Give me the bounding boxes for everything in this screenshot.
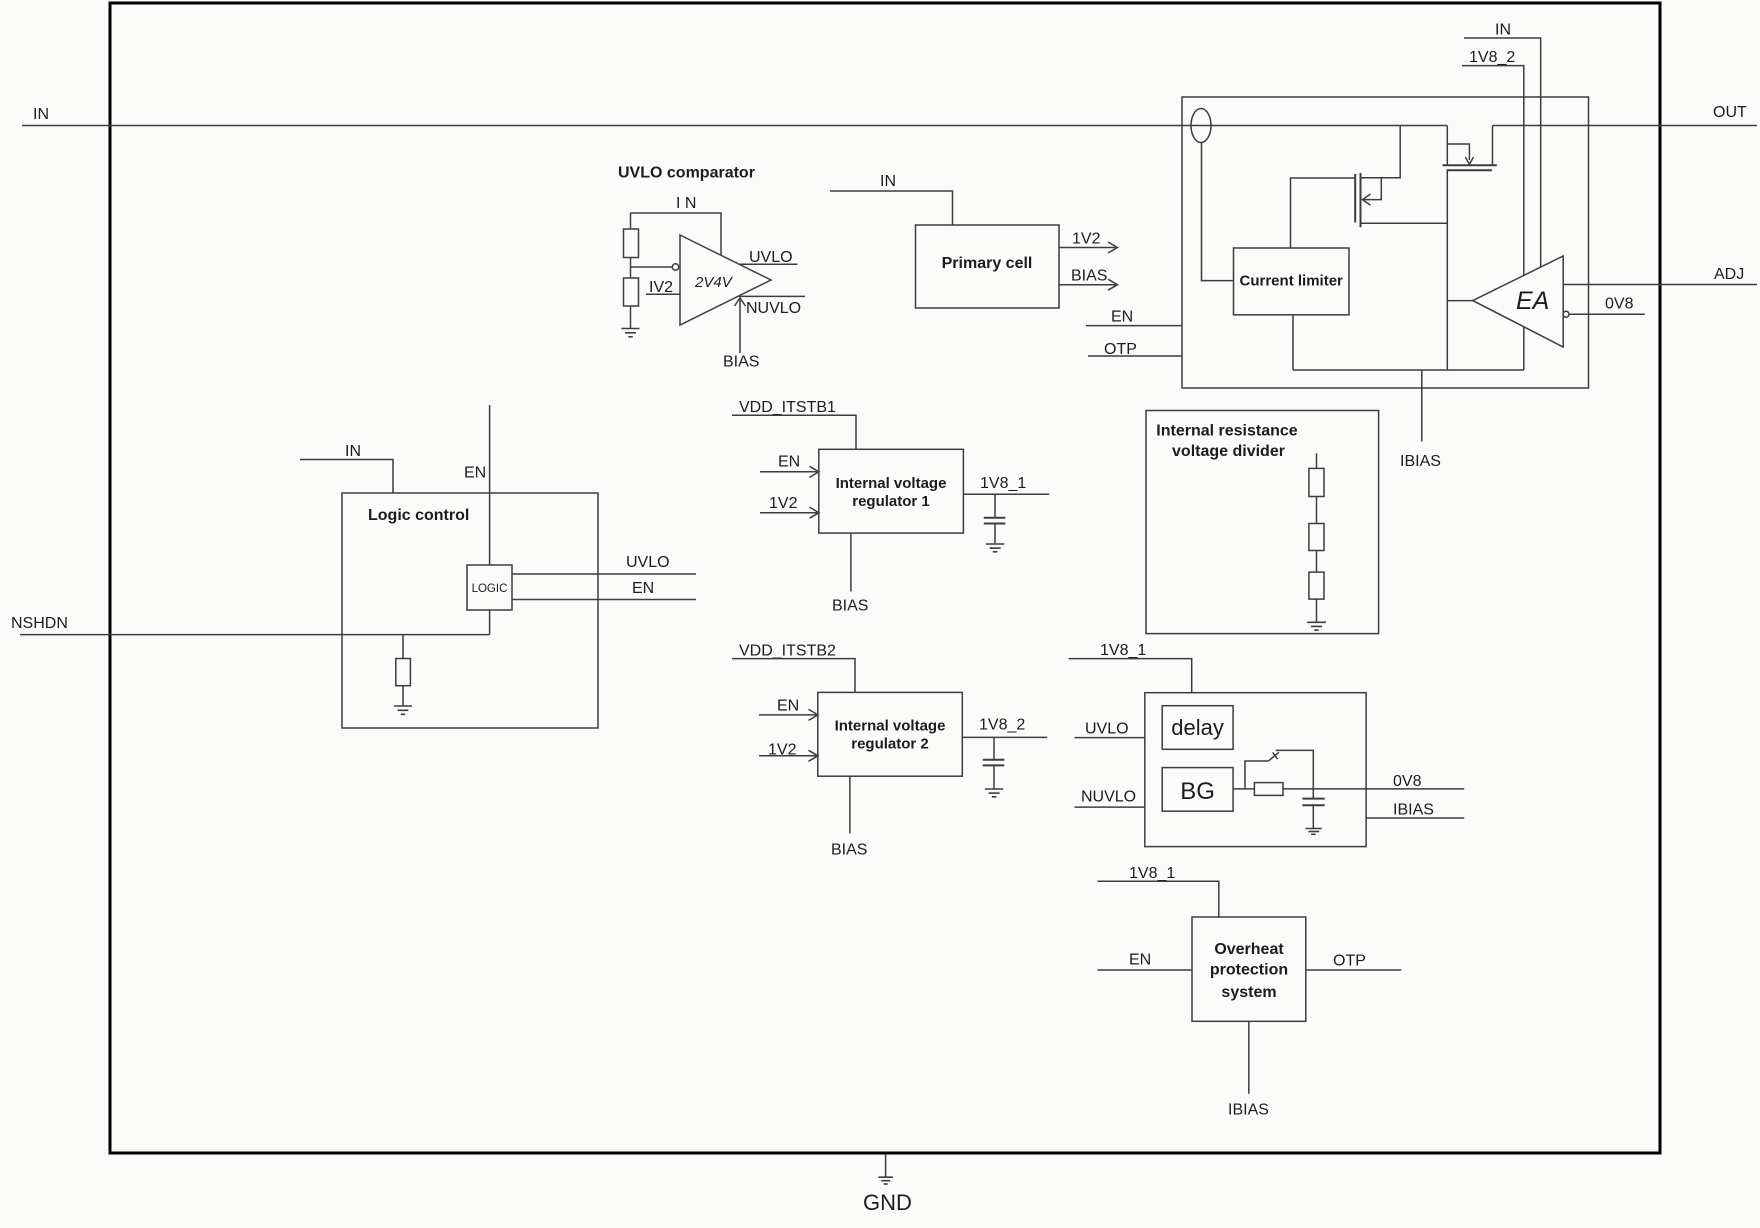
svg-text:2V4V: 2V4V [694,274,734,291]
wire ellipse to current limiter [1202,143,1234,281]
block Overheat protection system [1192,917,1306,1021]
LOGIC sub-block [467,565,512,610]
wire current limiter top to M1 gate [1291,178,1356,248]
capacitor C3 (delay block) [1302,798,1324,800]
block Internal resistance voltage divider [1146,411,1379,634]
wire IN top of comparator [631,213,722,256]
wire VDD_ITSTB1 into regulator 1 [732,415,856,449]
wire 1V8_1 into delay block [1069,659,1192,693]
svg-text:NUVLO: NUVLO [1081,789,1136,806]
svg-text:OUT: OUT [1713,104,1747,121]
wire 1V8_1 into overheat block [1098,881,1219,917]
wire 1V8_1 output of reg1 [963,493,1049,495]
wire LOGIC to NSHDN [489,610,491,635]
svg-text:1V8_1: 1V8_1 [980,475,1026,492]
svg-text:BIAS: BIAS [831,842,867,859]
wire BG output [1233,788,1254,790]
svg-text:BIAS: BIAS [723,354,759,371]
block Current limiter [1234,248,1350,315]
wire IN into primary cell [830,191,953,225]
svg-text:1V8_1: 1V8_1 [1100,642,1146,659]
ground (NSHDN pulldown) [394,706,412,714]
svg-text:Current limiter: Current limiter [1240,273,1344,290]
svg-text:BIAS: BIAS [832,598,868,615]
op-amp EA error amplifier [1473,256,1563,347]
wire IBIAS below overheat [1248,1021,1250,1094]
wire 1V2 into reg1 with arrow [760,512,817,514]
wire OTP output [1306,969,1402,971]
wire BIAS into comparator [739,299,741,353]
wire 0V8 output line [1283,788,1464,790]
inverting input bubble [672,264,678,270]
wire OTP into output stage [1088,355,1182,357]
wire 1V8_2 output of reg2 [962,736,1047,738]
svg-text:Overheat: Overheat [1214,941,1284,958]
output stage block box [1182,97,1589,388]
wire M1 drain to rail [1361,126,1401,178]
svg-text:LOGIC: LOGIC [472,583,508,595]
wire M2 source to OUT rail [1492,126,1494,166]
resistor R7 (BG output) [1254,783,1283,796]
wire NSHDN branch to resistor [402,635,404,659]
svg-text:I N: I N [676,195,696,212]
wire NUVLO output (overline) [738,295,805,297]
capacitor C1 on 1V8_1 [994,494,996,517]
0V8 inverting bubble [1563,311,1569,317]
svg-text:GND: GND [863,1190,912,1215]
wire EN vertical into LOGIC [489,405,491,565]
svg-text:NUVLO: NUVLO [746,300,801,317]
block delay [1162,706,1233,750]
svg-text:OTP: OTP [1333,953,1366,970]
svg-text:IV2: IV2 [649,279,673,296]
wire 1V8_2 drop through EA to feedback line [1462,66,1524,370]
svg-text:UVLO comparator: UVLO comparator [618,165,755,182]
svg-text:EN: EN [1111,309,1133,326]
block BG bandgap [1162,768,1233,812]
ground (divider) [622,329,640,337]
svg-text:Internal voltage: Internal voltage [835,718,946,735]
svg-text:IN: IN [1495,22,1511,39]
resistor R4 (divider top) [1309,468,1324,496]
svg-text:VDD_ITSTB1: VDD_ITSTB1 [739,399,836,416]
block Internal voltage regulator 2 [818,692,963,776]
transistor M2 (PMOS pass) drain drop [1446,126,1448,166]
svg-text:system: system [1221,984,1276,1001]
wire VDD_ITSTB2 into regulator 2 [732,659,855,693]
svg-text:IN: IN [880,173,896,190]
wire EN into reg1 with arrow [760,471,817,473]
wire EN into overheat [1098,969,1193,971]
resistor R2 (lower divider resistor) [624,278,639,306]
resistor R6 (divider bottom) [1309,572,1324,599]
svg-text:1V8_1: 1V8_1 [1129,865,1175,882]
svg-text:regulator 2: regulator 2 [851,736,929,753]
wire ADJ [1563,284,1757,286]
resistor R3 (NSHDN pulldown) [396,659,411,686]
Logic control block box [342,493,598,728]
wire UVLO output of logic [512,573,696,575]
svg-text:protection: protection [1210,962,1288,979]
wire GND stub [885,1155,887,1177]
wire R4-R5 [1316,497,1318,524]
wire 0V8 output [1569,313,1645,315]
svg-text:0V8: 0V8 [1393,773,1422,790]
svg-text:BG: BG [1180,778,1215,805]
wire IV2 input [646,293,680,295]
current source ellipse [1191,109,1211,143]
M2 channel bar [1443,164,1497,166]
svg-text:voltage divider: voltage divider [1172,443,1285,460]
svg-text:UVLO: UVLO [626,554,670,571]
svg-text:Internal voltage: Internal voltage [836,475,947,492]
op-amp U1 comparator 2V4V [680,235,771,325]
wire M2 gate down to feedback line [1446,170,1448,370]
block Primary cell [916,225,1060,308]
wire NUVLO into delay block [1075,806,1145,808]
wire UVLO into delay block [1075,737,1145,739]
svg-text:regulator 1: regulator 1 [852,493,930,510]
wire EN into output stage [1086,325,1182,327]
ground (C1) [986,544,1004,552]
switch S1 [1245,761,1268,789]
wire divider top stub [1316,453,1318,468]
svg-text:EN: EN [777,698,799,715]
wire EN into reg2 with arrow [759,714,816,716]
svg-text:Primary cell: Primary cell [942,255,1033,272]
wire R5-R6 [1316,551,1318,573]
wire OUT rail (right segment from pass transistor) [1493,125,1758,127]
svg-text:Internal resistance: Internal resistance [1156,423,1298,440]
wire R6 to ground [1316,599,1318,622]
wire IN drop to EA [1464,38,1541,268]
wire IBIAS drop below box [1421,370,1423,441]
wire M1 source [1361,222,1448,224]
svg-text:BIAS: BIAS [1071,268,1107,285]
ground GND symbol [878,1177,893,1184]
wire feedback bottom line [1293,369,1524,371]
svg-text:delay: delay [1171,715,1224,740]
svg-text:1V2: 1V2 [769,495,798,512]
svg-text:1V8_2: 1V8_2 [979,717,1025,734]
block Internal voltage regulator 1 [819,449,964,533]
resistor R1 (upper divider resistor) [630,213,632,229]
resistor R5 (divider middle) [1309,524,1324,551]
svg-text:IN: IN [33,106,49,123]
wire EN output of logic [512,599,696,601]
wire IN rail (left segment to pass transistor) [22,125,1447,127]
svg-text:UVLO: UVLO [1085,721,1129,738]
svg-text:IN: IN [345,443,361,460]
M1 body arrow [1364,178,1382,200]
svg-text:VDD_ITSTB2: VDD_ITSTB2 [739,643,836,660]
ground (C2) [985,789,1003,797]
wire NSHDN [20,634,490,636]
ground (divider chain) [1307,622,1326,630]
M2 gate bar [1447,169,1492,171]
svg-text:EN: EN [632,580,654,597]
svg-text:IBIAS: IBIAS [1393,802,1434,819]
svg-text:EN: EN [778,454,800,471]
wire current limiter bottom drop [1292,315,1294,370]
wire BIAS below reg1 [850,533,852,591]
svg-text:Logic control: Logic control [368,507,469,524]
delay/BG block box [1145,693,1366,847]
svg-text:1V2: 1V2 [1072,231,1101,248]
svg-text:0V8: 0V8 [1605,296,1634,313]
wire 1V2 output with arrow [1059,247,1116,249]
wire IBIAS output (delay block) [1366,817,1464,819]
wire 1V2 into reg2 with arrow [759,755,816,757]
svg-text:EN: EN [1129,952,1151,969]
svg-text:NSHDN: NSHDN [11,615,68,632]
svg-text:IBIAS: IBIAS [1228,1102,1269,1119]
wire EA output to gate line [1447,300,1473,302]
wire BIAS output with arrow [1059,284,1116,286]
capacitor C2 on 1V8_2 [993,737,995,759]
ground (C3) [1306,829,1322,835]
wire divider mid node [630,258,632,279]
svg-text:ADJ: ADJ [1714,266,1744,283]
transistor M1 (NMOS mirror) [1354,174,1356,223]
svg-text:EA: EA [1516,287,1549,315]
wire IN into logic control [300,460,393,494]
svg-text:UVLO: UVLO [749,249,793,266]
svg-text:1V8_2: 1V8_2 [1469,49,1515,66]
M2 gate stub with arrow [1447,144,1469,160]
wire UVLO output [739,263,797,265]
svg-text:IBIAS: IBIAS [1400,453,1441,470]
svg-text:EN: EN [464,465,486,482]
wire BIAS below reg2 [849,776,851,833]
